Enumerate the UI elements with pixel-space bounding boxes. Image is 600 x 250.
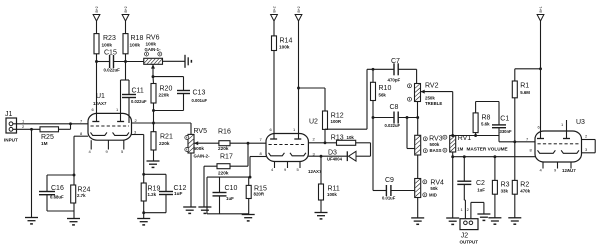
svg-text:GAIN-2-: GAIN-2- [194,154,211,159]
svg-text:C13: C13 [193,90,206,97]
svg-text:50k: 50k [430,186,438,191]
svg-text:J2: J2 [461,233,469,240]
svg-text:1M: 1M [457,147,463,152]
svg-text:R8: R8 [482,115,491,122]
svg-text:220k: 220k [159,141,170,146]
svg-text:330nF: 330nF [500,129,513,134]
svg-text:RV2: RV2 [425,83,439,90]
svg-text:R10: R10 [379,85,392,92]
svg-text:MASTER VOLUME: MASTER VOLUME [467,147,508,152]
svg-text:R20: R20 [160,86,173,93]
svg-text:5.6k: 5.6k [481,122,490,127]
svg-text:100k: 100k [130,43,141,48]
svg-text:220k: 220k [159,93,170,98]
svg-text:220k: 220k [218,146,229,151]
svg-text:UF4004: UF4004 [327,157,343,162]
svg-text:R18: R18 [131,35,144,42]
svg-text:MID: MID [429,193,437,198]
svg-text:R13: R13 [331,135,344,142]
svg-text:RV6: RV6 [146,35,160,42]
svg-text:B+2: B+2 [273,6,277,12]
svg-text:56k: 56k [379,93,387,98]
svg-text:B+2: B+2 [124,6,128,12]
svg-text:C8: C8 [390,104,399,111]
svg-text:R23: R23 [103,35,116,42]
svg-text:0.022uF: 0.022uF [131,99,147,104]
svg-text:B+1: B+1 [539,6,543,12]
svg-text:470pF: 470pF [388,78,401,83]
svg-text:GAIN-1-: GAIN-1- [145,47,162,52]
svg-text:R1: R1 [520,83,529,90]
svg-text:U1: U1 [96,93,105,100]
svg-text:R14: R14 [280,38,293,45]
svg-text:0.022uF: 0.022uF [104,68,121,73]
svg-text:100k: 100k [279,45,290,50]
svg-text:1uF: 1uF [477,188,485,193]
svg-text:500k: 500k [430,142,440,147]
svg-text:U2: U2 [309,119,318,126]
svg-text:2.7k: 2.7k [77,193,86,198]
svg-text:C11: C11 [132,88,144,95]
svg-text:C1: C1 [500,116,509,123]
svg-text:D3: D3 [328,150,337,157]
svg-text:C10: C10 [225,185,238,192]
svg-text:12AX7: 12AX7 [308,169,322,174]
svg-text:J1: J1 [5,111,13,118]
svg-text:1uF: 1uF [226,196,234,201]
svg-text:INPUT: INPUT [4,138,18,143]
svg-text:500k: 500k [194,146,205,151]
svg-text:10k: 10k [347,135,355,140]
svg-text:1.2k: 1.2k [148,192,157,197]
svg-text:C15: C15 [104,50,117,57]
svg-text:470k: 470k [520,188,530,193]
svg-text:33k: 33k [501,188,509,193]
svg-text:100k: 100k [146,42,157,47]
svg-text:0.001uF: 0.001uF [192,98,208,103]
svg-text:220k: 220k [218,171,229,176]
svg-text:RV5: RV5 [194,128,208,135]
svg-text:B+2: B+2 [297,6,301,12]
svg-text:100R: 100R [331,119,342,124]
svg-text:R25: R25 [41,134,54,141]
svg-text:C7: C7 [391,58,400,65]
svg-text:R16: R16 [218,129,231,136]
svg-text:U3: U3 [576,119,585,126]
svg-text:1M: 1M [41,141,48,146]
svg-text:5.6M: 5.6M [520,90,530,95]
svg-text:1uF: 1uF [174,191,182,196]
svg-text:100k: 100k [327,192,337,197]
svg-text:12AX7: 12AX7 [93,101,107,106]
svg-text:R21: R21 [160,134,173,141]
svg-text:0.022uF: 0.022uF [385,123,401,128]
svg-text:C16: C16 [51,185,64,192]
svg-text:0.01uF: 0.01uF [382,196,396,201]
svg-text:BASS: BASS [430,148,442,153]
svg-text:OUTPUT: OUTPUT [460,240,479,245]
svg-text:C9: C9 [385,177,394,184]
svg-text:TREBLE: TREBLE [425,101,442,106]
svg-text:C2: C2 [476,180,485,187]
svg-text:250k: 250k [425,95,435,100]
svg-text:R17: R17 [220,154,233,161]
svg-text:820R: 820R [254,192,265,197]
svg-text:B+2: B+2 [95,6,99,12]
svg-text:0.68uF: 0.68uF [50,194,64,199]
svg-text:100k: 100k [102,43,113,48]
